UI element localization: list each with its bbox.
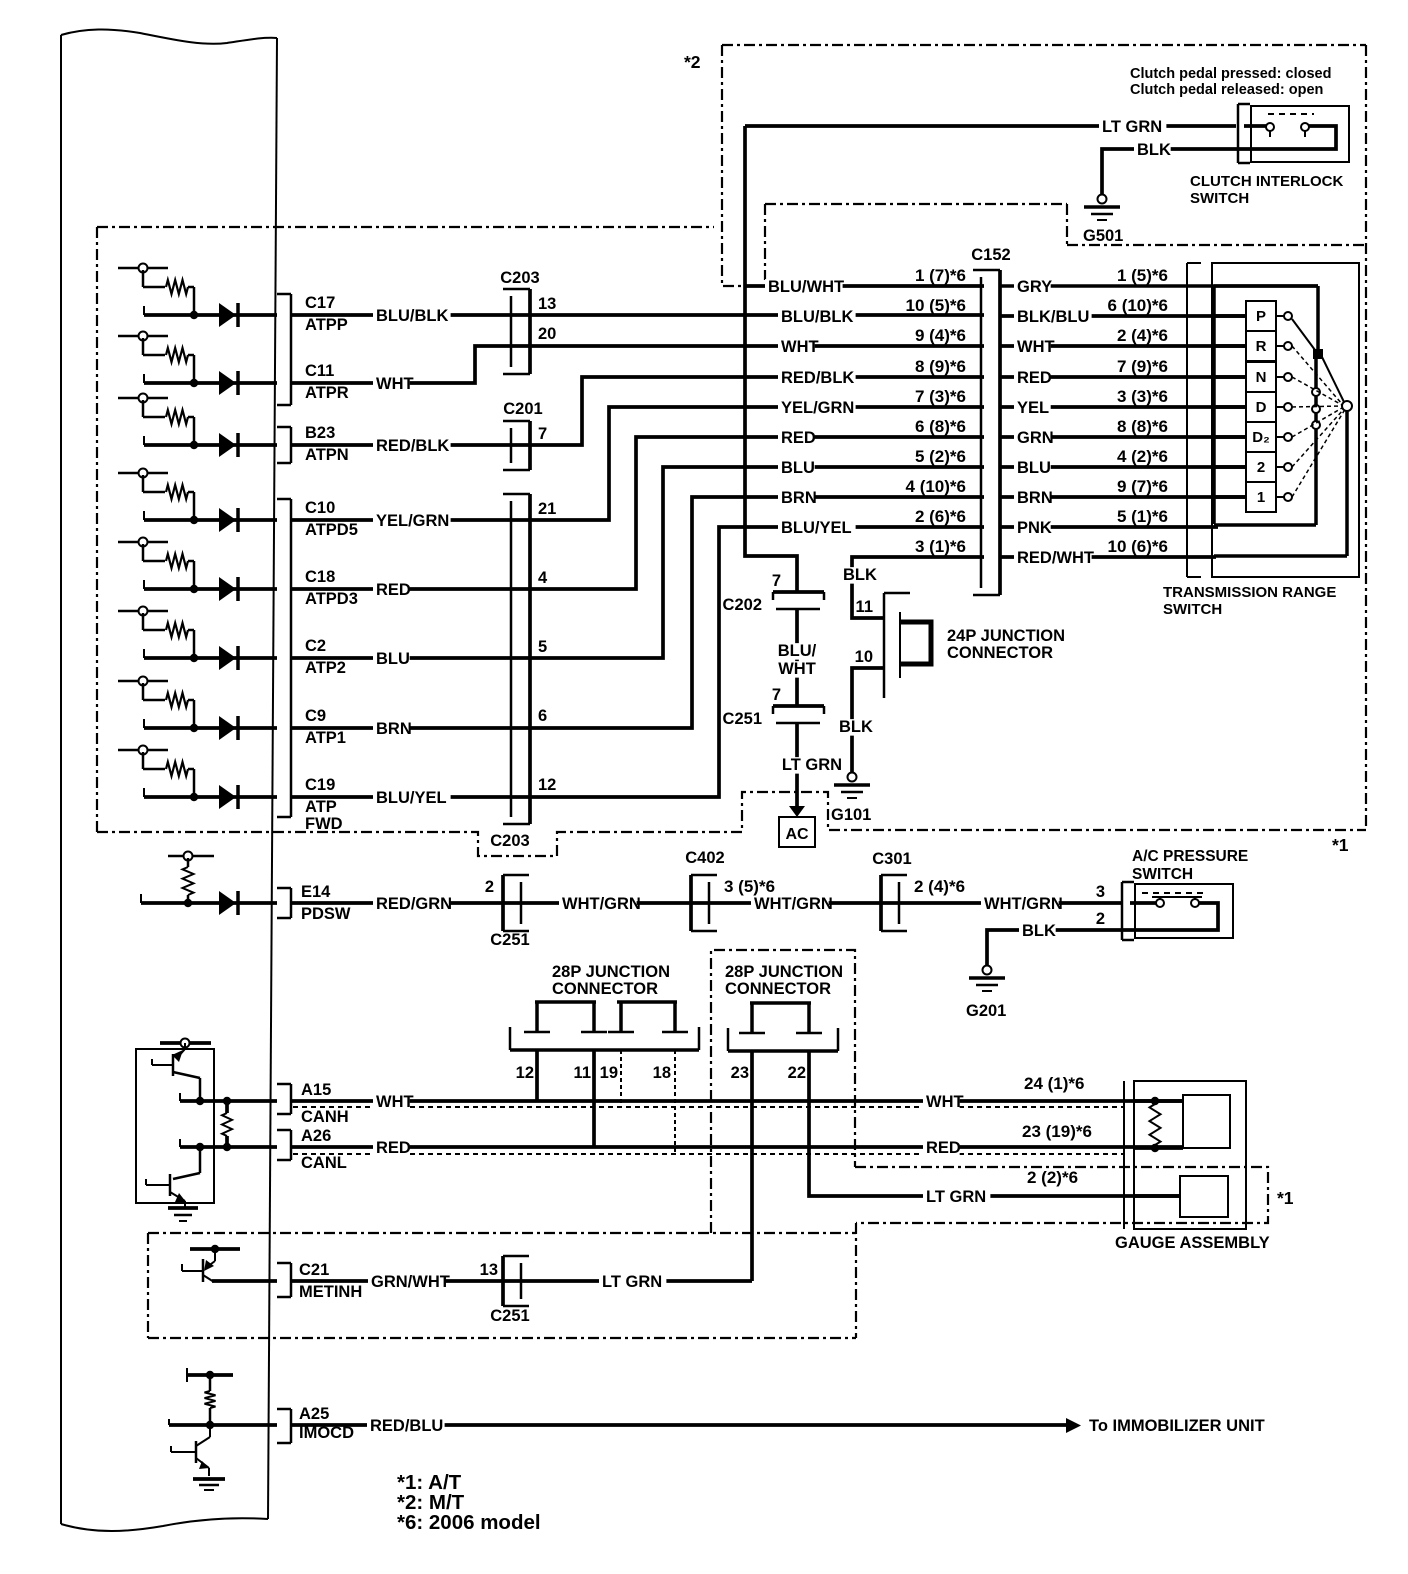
wire ATP2 BLU row <box>291 467 984 658</box>
gear 2 contact terminal <box>1276 466 1284 468</box>
pull-up resistor and diode cell for C10 ATPD5 <box>118 472 168 475</box>
wire label BLU/BLK (C152 left row 2) <box>778 309 856 326</box>
svg-text:3 (3)*6: 3 (3)*6 <box>1117 387 1168 406</box>
svg-text:SWITCH: SWITCH <box>1132 866 1193 883</box>
svg-text:PNK: PNK <box>1017 519 1052 537</box>
svg-text:11: 11 <box>856 598 873 616</box>
svg-text:A26: A26 <box>301 1127 331 1145</box>
wire label RED <box>373 582 410 599</box>
node CANL junction <box>196 1143 204 1151</box>
svg-text:C21: C21 <box>299 1261 329 1279</box>
svg-text:B23: B23 <box>305 424 335 442</box>
terminal bracket A25 <box>290 1409 293 1443</box>
wire label RED (gauge side) <box>923 1140 960 1157</box>
wire label BLK (A/C) <box>1019 923 1056 940</box>
svg-text:1 (7)*6: 1 (7)*6 <box>915 266 966 285</box>
wire label BLU <box>373 651 410 668</box>
wire label BLK <box>1134 142 1171 159</box>
wire CANH WHT row <box>291 1099 1183 1103</box>
svg-text:CONNECTOR: CONNECTOR <box>947 644 1053 662</box>
svg-text:BLK: BLK <box>839 718 873 736</box>
svg-text:2: 2 <box>1257 459 1265 476</box>
svg-text:ATP: ATP <box>305 798 337 816</box>
ground G101 <box>848 773 857 782</box>
wire label RED/WHT (C152 right) <box>1014 550 1092 567</box>
svg-text:C203: C203 <box>490 832 529 850</box>
svg-text:BLU/BLK: BLU/BLK <box>781 308 853 326</box>
svg-text:C251: C251 <box>490 1307 529 1325</box>
gear R contact terminal <box>1276 345 1284 347</box>
svg-text:YEL: YEL <box>1017 399 1049 417</box>
IMOCD pull-up resistor <box>209 1375 212 1391</box>
svg-text:A25: A25 <box>299 1405 329 1423</box>
pull-up resistor and diode cell for C11 ATPR <box>118 335 168 338</box>
connector C202 <box>773 590 824 594</box>
connector C203 (lower) <box>510 501 513 817</box>
svg-text:N: N <box>1256 369 1267 386</box>
gauge upper unit <box>1183 1095 1230 1148</box>
wire IMOCD RED/BLU <box>291 1423 1066 1427</box>
svg-text:BLU/WHT: BLU/WHT <box>768 278 844 296</box>
svg-text:7 (9)*6: 7 (9)*6 <box>1117 357 1168 376</box>
svg-text:RED: RED <box>781 429 816 447</box>
clutch interlock switch body <box>1251 106 1349 162</box>
svg-text:RED: RED <box>376 581 411 599</box>
METINH dash-dot box left edge <box>147 1233 149 1338</box>
dashed contact 1 <box>1292 411 1344 497</box>
TRS inner thick frame <box>1212 286 1216 524</box>
inner dash-dot box right step <box>1066 204 1068 245</box>
svg-text:BLU/: BLU/ <box>778 642 817 660</box>
svg-text:RED/GRN: RED/GRN <box>376 895 452 913</box>
gear D contact terminal <box>1276 406 1284 408</box>
wire label BLU/ WHT <box>774 643 821 660</box>
svg-text:6 (8)*6: 6 (8)*6 <box>915 417 966 436</box>
gauge internal resistor <box>1150 1104 1161 1145</box>
svg-text:9 (7)*6: 9 (7)*6 <box>1117 477 1168 496</box>
svg-text:C11: C11 <box>305 362 334 380</box>
28P junction connector No.2 dash-dot box <box>711 950 855 1233</box>
gear 2 wire <box>1214 465 1246 469</box>
svg-text:RED: RED <box>1017 369 1052 387</box>
wire label LT GRN <box>1099 119 1166 136</box>
svg-text:To IMMOBILIZER UNIT: To IMMOBILIZER UNIT <box>1089 1417 1265 1435</box>
wire label WHT/GRN (3) <box>981 896 1059 913</box>
svg-text:ATP2: ATP2 <box>305 659 346 677</box>
wire label WHT <box>373 376 410 393</box>
svg-text:5: 5 <box>538 638 547 656</box>
svg-text:METINH: METINH <box>299 1283 362 1301</box>
svg-text:10 (6)*6: 10 (6)*6 <box>1108 537 1168 556</box>
wire label BLU/BLK <box>373 308 451 325</box>
svg-text:LT GRN: LT GRN <box>926 1188 986 1206</box>
svg-text:4 (10)*6: 4 (10)*6 <box>906 477 966 496</box>
wire IMOCD row inside <box>168 1419 170 1425</box>
svg-text:LT GRN: LT GRN <box>602 1273 662 1291</box>
wire label RED/BLK <box>373 438 451 455</box>
svg-text:C201: C201 <box>503 400 542 418</box>
svg-text:C10: C10 <box>305 499 335 517</box>
svg-text:19: 19 <box>600 1064 618 1082</box>
A/T function dash-dot box left edge <box>96 227 98 832</box>
svg-text:*1: *1 <box>1277 1188 1294 1208</box>
dash-dot right edge of METINH box <box>855 1223 857 1338</box>
wire CANH inside box <box>179 1093 181 1101</box>
svg-text:11: 11 <box>574 1064 591 1082</box>
wire GRN to gear contact <box>1000 435 1246 439</box>
wire BLK to G201 <box>987 930 1122 965</box>
svg-text:C19: C19 <box>305 776 335 794</box>
svg-text:BLK: BLK <box>1022 922 1056 940</box>
wire BLK clutch to G501 <box>1102 149 1236 194</box>
svg-text:*2: *2 <box>684 52 701 72</box>
wire CANL inside box <box>179 1139 181 1147</box>
wire label RED/GRN <box>373 896 451 913</box>
svg-text:AC: AC <box>785 826 809 843</box>
wire label GRN/WHT <box>368 1274 446 1291</box>
svg-text:C251: C251 <box>723 710 762 728</box>
svg-text:RED/WHT: RED/WHT <box>1017 549 1094 567</box>
svg-text:3: 3 <box>1096 883 1105 901</box>
METINH dash-dot box top edge <box>148 1232 856 1234</box>
wire label BRN <box>373 721 410 738</box>
wire BLU/WHT from M/T bus to C152 <box>745 284 984 288</box>
ground G501 <box>1098 195 1107 204</box>
svg-text:24 (1)*6: 24 (1)*6 <box>1024 1074 1084 1093</box>
wire ATPD5 YEL/GRN row <box>291 407 984 520</box>
pull-up resistor and diode cell for C2 ATP2 <box>118 610 168 613</box>
gear D wire <box>1214 405 1246 409</box>
svg-text:C402: C402 <box>685 849 724 867</box>
svg-text:12: 12 <box>516 1064 534 1082</box>
svg-text:*1: *1 <box>1332 835 1349 855</box>
wire BLK from C152 pin3 to 24P junction <box>852 557 984 618</box>
connector C152 <box>980 277 983 588</box>
wire ATP1 BRN row <box>291 497 984 728</box>
ground (CAN driver) <box>168 1206 198 1210</box>
svg-text:21: 21 <box>538 500 556 518</box>
wire label YEL (C152 right) <box>1014 400 1051 417</box>
svg-text:ATP1: ATP1 <box>305 729 346 747</box>
svg-text:CLUTCH INTERLOCK: CLUTCH INTERLOCK <box>1190 173 1343 190</box>
svg-text:ATPN: ATPN <box>305 446 349 464</box>
ground G201 <box>983 966 992 975</box>
svg-text:4 (2)*6: 4 (2)*6 <box>1117 447 1168 466</box>
contact square node <box>1313 349 1323 359</box>
wire label WHT (CANH) <box>373 1094 410 1111</box>
IMOCD supply stub <box>187 1373 233 1377</box>
M/T dash-dot box top edge <box>722 44 1366 46</box>
svg-text:TRANSMISSION RANGE: TRANSMISSION RANGE <box>1163 584 1336 601</box>
gauge wires <box>1134 1099 1183 1103</box>
transistor Q2 (CANL driver) <box>169 1174 172 1196</box>
svg-text:C18: C18 <box>305 568 335 586</box>
svg-text:24P JUNCTION: 24P JUNCTION <box>947 627 1065 645</box>
clutch interlock switch connector bracket <box>1237 104 1240 163</box>
wire LT GRN to A/C <box>795 723 799 806</box>
CAN driver supply stub <box>160 1041 211 1045</box>
terminal bracket A15 <box>290 1084 293 1114</box>
svg-text:1: 1 <box>1257 489 1265 506</box>
svg-text:ATPD5: ATPD5 <box>305 521 358 539</box>
wire RED/WHT common return <box>1000 555 1216 559</box>
28P junction connector 1 symbol <box>535 1000 596 1004</box>
wire label WHT/GRN (2) <box>751 896 829 913</box>
svg-text:3 (5)*6: 3 (5)*6 <box>724 877 775 896</box>
wire CANL shield (dashed) <box>293 1153 1124 1155</box>
connector C251 (mid) <box>773 704 824 708</box>
wire label RED (CANL) <box>373 1140 410 1157</box>
A/C pressure switch contacts <box>1130 901 1156 905</box>
TRS outer box <box>1212 263 1359 577</box>
wire label BLU/WHT (C152 left row 1) <box>765 279 843 296</box>
wire BLU/WHT between C202 and C251 <box>795 609 799 706</box>
gauge *1 dash-dot band <box>855 1167 1268 1223</box>
wire YEL to gear contact <box>1000 405 1246 409</box>
wire label RED (C152 right) <box>1014 370 1051 387</box>
dashed contact N <box>1292 377 1342 405</box>
svg-text:7 (3)*6: 7 (3)*6 <box>915 387 966 406</box>
wire WHT to gear contact <box>1000 344 1246 348</box>
svg-text:23 (19)*6: 23 (19)*6 <box>1022 1122 1092 1141</box>
wire 28P pin18 drop (shield) <box>674 1050 676 1154</box>
wire PNK to TRS inner bottom <box>1000 525 1218 529</box>
svg-text:10: 10 <box>855 648 873 666</box>
wire label BLU/YEL (C152 left row 9) <box>778 520 856 537</box>
ground (IMOCD) <box>193 1477 225 1481</box>
wire label RED/BLU <box>367 1418 445 1435</box>
node CANH junction <box>196 1097 204 1105</box>
wire label WHT (gauge side) <box>923 1094 960 1111</box>
svg-text:BLU: BLU <box>376 650 410 668</box>
wire 28P pin11 drop <box>592 1050 596 1147</box>
svg-text:4: 4 <box>538 569 548 587</box>
svg-text:BRN: BRN <box>1017 489 1053 507</box>
wire ATP FWD BLU/YEL row <box>291 527 984 797</box>
gear N wire <box>1214 375 1246 379</box>
transistor Q3 (METINH, PNP) <box>214 1249 216 1261</box>
svg-text:RED/BLK: RED/BLK <box>781 369 854 387</box>
wire RED to gear contact <box>1000 375 1246 379</box>
wire label LT GRN (vertical) <box>778 757 845 774</box>
wire BRN to gear contact <box>1000 495 1246 499</box>
terminal bracket C21 <box>290 1263 293 1297</box>
svg-text:BRN: BRN <box>376 720 412 738</box>
bus contact circles <box>1312 388 1320 396</box>
svg-text:2 (6)*6: 2 (6)*6 <box>915 507 966 526</box>
wire label GRN (C152 right) <box>1014 430 1051 447</box>
wire ATPN RED/BLK row <box>291 377 984 445</box>
svg-text:2: 2 <box>485 878 494 896</box>
svg-text:A15: A15 <box>301 1081 331 1099</box>
wire label YEL/GRN (C152 left row 5) <box>778 400 856 417</box>
svg-text:WHT/GRN: WHT/GRN <box>984 895 1063 913</box>
wire ATPP BLU/BLK row <box>291 313 984 317</box>
svg-text:3 (1)*6: 3 (1)*6 <box>915 537 966 556</box>
gear D₂ wire <box>1214 435 1246 439</box>
wire label WHT (C152 left row 3) <box>778 339 815 356</box>
connector C203 (upper) <box>510 296 513 367</box>
svg-text:LT GRN: LT GRN <box>782 756 842 774</box>
svg-text:GRN/WHT: GRN/WHT <box>371 1273 450 1291</box>
transistor Q4 (IMOCD) <box>195 1441 198 1463</box>
svg-text:20: 20 <box>538 325 556 343</box>
svg-text:2 (4)*6: 2 (4)*6 <box>914 877 965 896</box>
svg-text:RED/BLK: RED/BLK <box>376 437 449 455</box>
svg-text:GRY: GRY <box>1017 278 1052 296</box>
pull-up resistor and diode cell for C17 ATPP <box>118 267 168 270</box>
gear P wire <box>1214 314 1246 318</box>
gauge lower unit <box>1180 1176 1228 1217</box>
svg-text:C17: C17 <box>305 294 335 312</box>
gauge assembly connector <box>1123 1081 1125 1229</box>
pull-up resistor and diode cell for C18 ATPD3 <box>118 541 168 544</box>
28P junction connector 2 symbol <box>750 1001 811 1005</box>
svg-text:ATPD3: ATPD3 <box>305 590 358 608</box>
svg-text:PDSW: PDSW <box>301 905 351 923</box>
svg-text:GRN: GRN <box>1017 429 1054 447</box>
connector C251 (PDSW row) <box>501 875 505 931</box>
pull-up resistor and diode cell for E14 PDSW <box>168 855 214 858</box>
svg-text:WHT: WHT <box>778 660 816 678</box>
svg-text:6: 6 <box>538 707 547 725</box>
svg-text:A/C PRESSURE: A/C PRESSURE <box>1132 848 1248 865</box>
terminating resistor <box>225 1101 229 1113</box>
svg-text:22: 22 <box>788 1064 806 1082</box>
svg-text:RED: RED <box>376 1139 411 1157</box>
svg-text:BLU: BLU <box>781 459 815 477</box>
connector C402 <box>689 875 693 931</box>
wire CANL RED row <box>291 1145 1183 1149</box>
svg-text:CANL: CANL <box>301 1154 347 1172</box>
gauge assembly body <box>1134 1081 1246 1229</box>
A/C pressure switch connector bracket <box>1121 882 1124 940</box>
inner dash-dot box bottom edge under G501 <box>1067 244 1366 246</box>
svg-text:E14: E14 <box>301 883 331 901</box>
METINH dash-dot box bottom edge <box>148 1337 856 1339</box>
terminal bracket B23 <box>290 427 293 463</box>
svg-text:7: 7 <box>772 572 781 590</box>
rotary pivot contact <box>1342 401 1352 411</box>
svg-text:WHT: WHT <box>376 1093 414 1111</box>
svg-text:D₂: D₂ <box>1252 429 1270 446</box>
connector C251 (METINH row) <box>501 1256 505 1306</box>
TRS outer bracket <box>1186 263 1188 577</box>
wire BLU/WHT M/T bus <box>745 126 797 592</box>
gear R wire <box>1214 344 1246 348</box>
svg-text:6 (10)*6: 6 (10)*6 <box>1108 296 1168 315</box>
svg-text:G501: G501 <box>1083 227 1123 245</box>
A/T function dash-dot box top edge <box>97 226 714 228</box>
svg-text:CANH: CANH <box>301 1108 349 1126</box>
arrow to immobilizer <box>1066 1418 1081 1433</box>
svg-text:P: P <box>1256 308 1266 325</box>
svg-text:D: D <box>1256 399 1267 416</box>
inner dash-dot box left edge <box>764 204 766 280</box>
svg-text:G201: G201 <box>966 1002 1006 1020</box>
svg-text:C9: C9 <box>305 707 326 725</box>
wire METINH row <box>291 1279 752 1283</box>
svg-text:SWITCH: SWITCH <box>1163 601 1222 618</box>
wire LT GRN clutch <box>745 124 1236 128</box>
svg-text:*6: 2006 model: *6: 2006 model <box>397 1511 541 1534</box>
svg-text:RED: RED <box>926 1139 961 1157</box>
svg-text:BLU/BLK: BLU/BLK <box>376 307 448 325</box>
wire 28P pin22 drop <box>809 1051 1180 1196</box>
terminal bracket C17/C11 group <box>290 294 293 405</box>
M/T dash-dot box right edge <box>1365 45 1367 830</box>
pull-up resistor and diode cell for C9 ATP1 <box>118 680 168 683</box>
wire label RED (C152 left row 6) <box>778 430 815 447</box>
svg-text:FWD: FWD <box>305 815 343 833</box>
dashed contact R <box>1292 346 1342 404</box>
svg-text:WHT: WHT <box>781 338 819 356</box>
wire ATPD3 RED row <box>291 437 984 589</box>
dashed contact D <box>1292 406 1342 407</box>
gear P contact terminal <box>1276 315 1284 317</box>
svg-text:RED/BLU: RED/BLU <box>370 1417 443 1435</box>
METINH driver stub <box>190 1247 240 1251</box>
svg-text:18: 18 <box>653 1064 671 1082</box>
svg-text:WHT: WHT <box>926 1093 964 1111</box>
svg-text:C251: C251 <box>490 931 529 949</box>
TRS gear position boxes <box>1246 301 1276 331</box>
svg-text:7: 7 <box>538 425 547 443</box>
pull-up resistor and diode cell for C19 ATP FWD <box>118 749 168 752</box>
wire PDSW row <box>291 901 1122 905</box>
wire 28P pin19 drop (shield) <box>620 1050 622 1107</box>
inner dash-dot box top edge (clutch region) <box>765 203 1067 205</box>
gear N contact terminal <box>1276 376 1284 378</box>
wire label BLK (vertical) <box>840 567 877 584</box>
svg-text:BLK/BLU: BLK/BLU <box>1017 308 1089 326</box>
clutch interlock switch contacts <box>1244 124 1266 128</box>
svg-text:28P JUNCTION: 28P JUNCTION <box>725 963 843 981</box>
ECM/PCM connector band outline <box>61 29 277 43</box>
svg-text:WHT: WHT <box>1017 338 1055 356</box>
wire label PNK (C152 right) <box>1014 520 1051 537</box>
wire label LT GRN (gauge) <box>923 1189 990 1206</box>
AC unit box <box>779 817 815 847</box>
svg-text:10 (5)*6: 10 (5)*6 <box>906 296 966 315</box>
CAN driver box <box>136 1049 214 1203</box>
svg-text:WHT: WHT <box>376 375 414 393</box>
svg-text:23: 23 <box>731 1064 749 1082</box>
svg-text:13: 13 <box>480 1261 498 1279</box>
svg-text:5 (2)*6: 5 (2)*6 <box>915 447 966 466</box>
connector C301 <box>879 875 883 931</box>
wire label GRY (C152 right) <box>1014 279 1051 296</box>
svg-text:SWITCH: SWITCH <box>1190 190 1249 207</box>
24P junction connector symbol <box>883 593 886 698</box>
terminal bracket E14 <box>290 888 293 918</box>
wire label BLU (C152 right) <box>1014 460 1051 477</box>
svg-text:BLU: BLU <box>1017 459 1051 477</box>
svg-text:12: 12 <box>538 776 556 794</box>
connector C201 <box>510 428 513 463</box>
wire CANH shield (dashed) <box>293 1106 1124 1108</box>
svg-text:C2: C2 <box>305 637 326 655</box>
svg-text:YEL/GRN: YEL/GRN <box>376 512 449 530</box>
pull-up resistor and diode cell for B23 ATPN <box>118 397 168 400</box>
svg-text:ATPR: ATPR <box>305 384 349 402</box>
svg-text:BLK: BLK <box>1137 141 1171 159</box>
wire label BLU/YEL <box>373 790 451 807</box>
wire label YEL/GRN <box>373 513 451 530</box>
svg-text:YEL/GRN: YEL/GRN <box>781 399 854 417</box>
svg-text:LT GRN: LT GRN <box>1102 118 1162 136</box>
terminal bracket A26 <box>290 1130 293 1160</box>
